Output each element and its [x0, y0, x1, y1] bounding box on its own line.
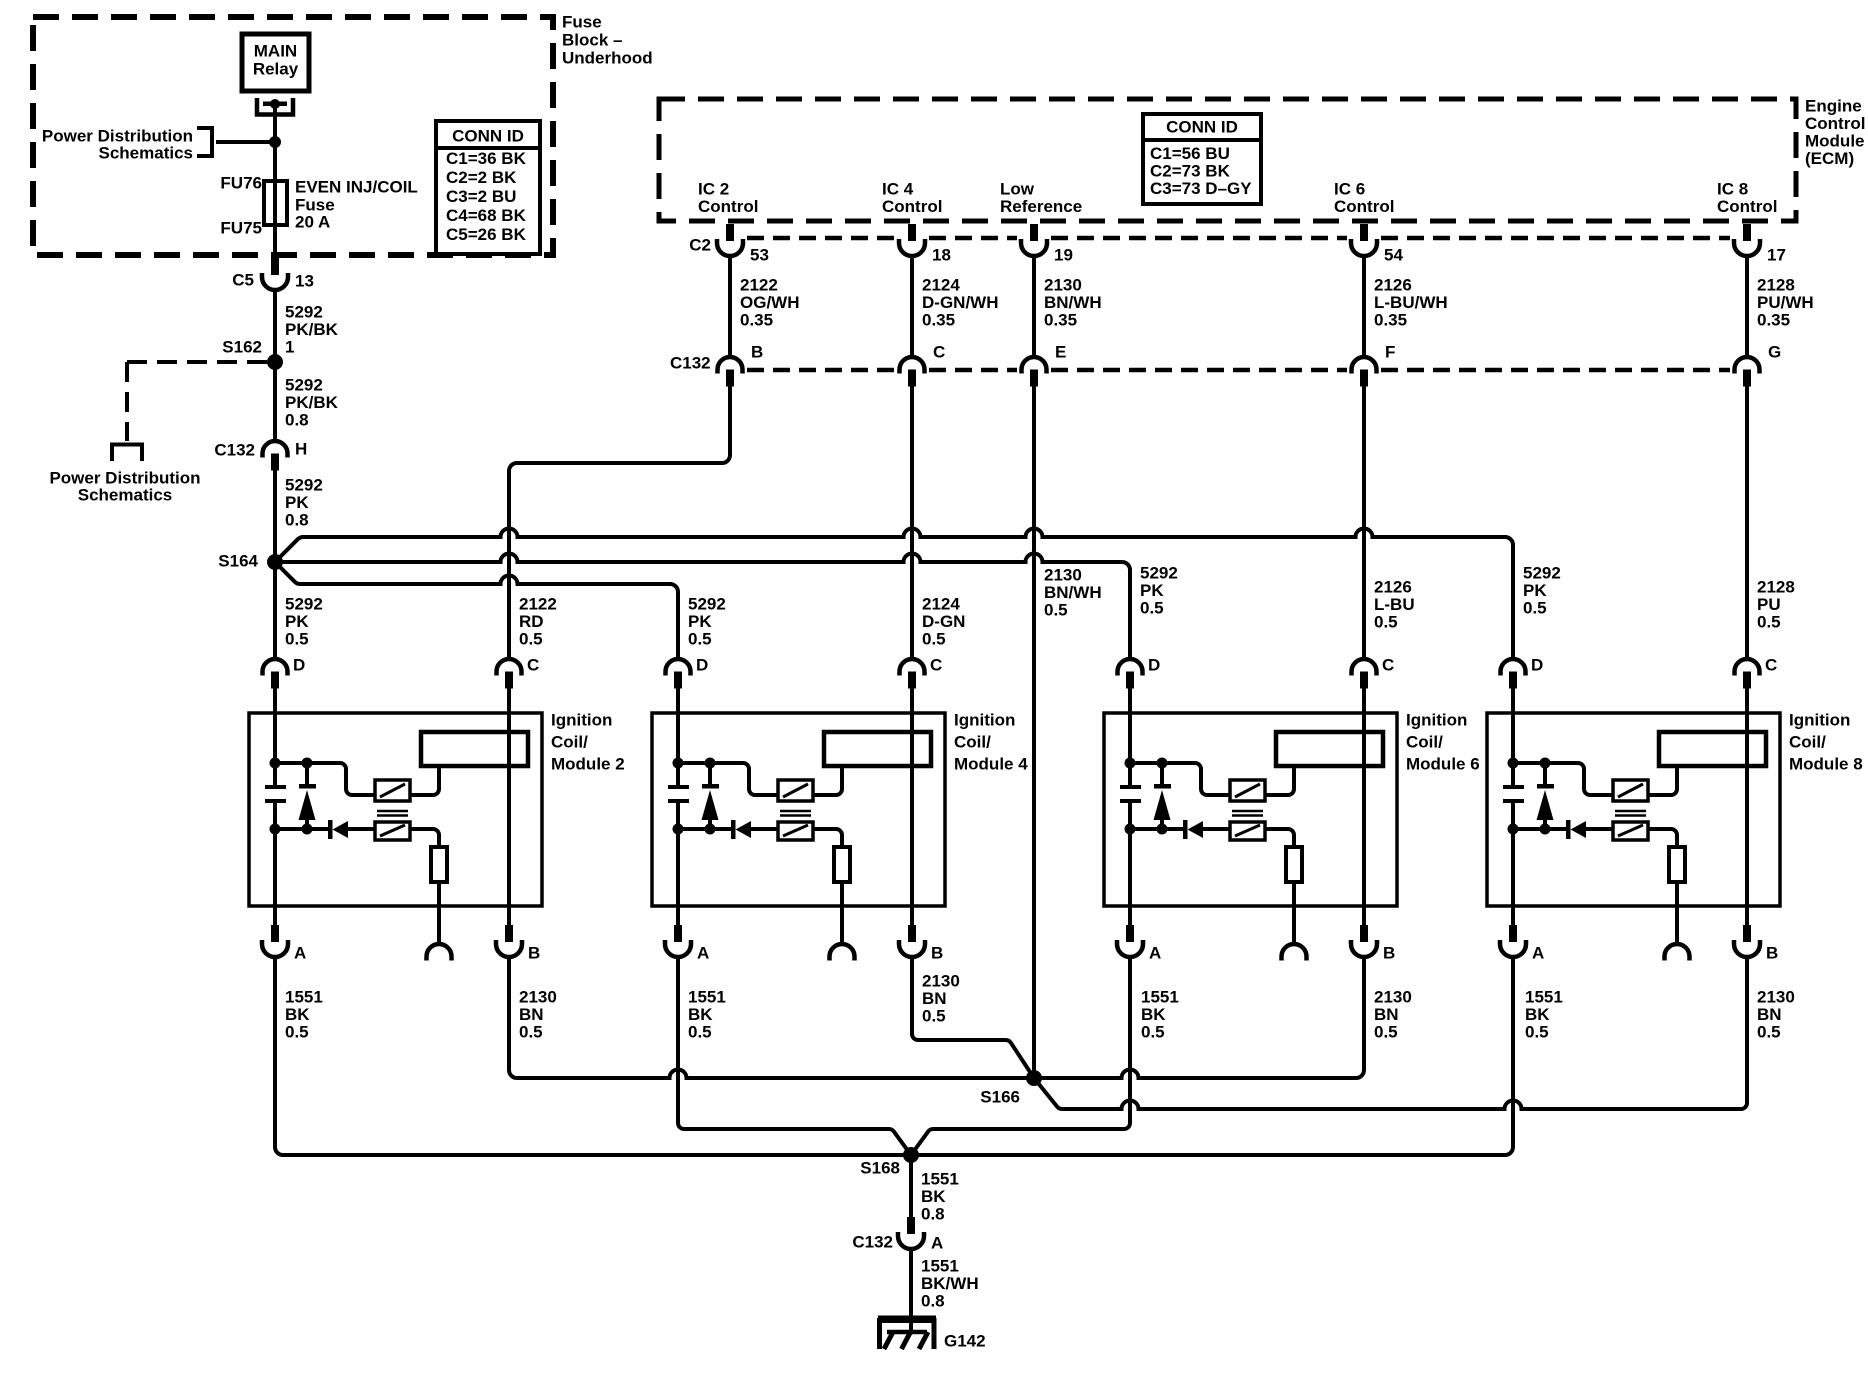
svg-text:0.5: 0.5 — [1757, 613, 1781, 632]
svg-text:C: C — [930, 656, 942, 675]
svg-text:FU75: FU75 — [220, 219, 262, 238]
svg-text:C1=56 BU: C1=56 BU — [1150, 144, 1230, 163]
svg-text:2126: 2126 — [1374, 578, 1412, 597]
svg-text:17: 17 — [1767, 246, 1786, 265]
svg-text:D: D — [1148, 656, 1160, 675]
svg-text:Module 4: Module 4 — [954, 755, 1028, 774]
svg-text:5292: 5292 — [285, 595, 323, 614]
svg-text:0.35: 0.35 — [1757, 311, 1790, 330]
svg-text:1: 1 — [285, 338, 294, 357]
svg-text:1551: 1551 — [921, 1170, 959, 1189]
svg-text:Control: Control — [1717, 197, 1777, 216]
svg-text:0.5: 0.5 — [688, 630, 712, 649]
svg-text:C1=36 BK: C1=36 BK — [446, 149, 527, 168]
svg-text:2130: 2130 — [1374, 988, 1412, 1007]
svg-text:0.5: 0.5 — [1044, 601, 1068, 620]
svg-text:13: 13 — [295, 272, 314, 291]
svg-text:PK: PK — [688, 612, 712, 631]
svg-text:5292: 5292 — [1523, 564, 1561, 583]
svg-text:0.35: 0.35 — [1374, 311, 1407, 330]
svg-text:0.5: 0.5 — [1140, 599, 1164, 618]
svg-text:(ECM): (ECM) — [1805, 149, 1854, 168]
svg-text:L-BU: L-BU — [1374, 595, 1415, 614]
svg-text:Module 6: Module 6 — [1406, 755, 1480, 774]
svg-text:PU/WH: PU/WH — [1757, 293, 1814, 312]
svg-text:C2=73 BK: C2=73 BK — [1150, 162, 1231, 181]
svg-text:L-BU/WH: L-BU/WH — [1374, 293, 1448, 312]
svg-text:C: C — [527, 656, 539, 675]
svg-text:1551: 1551 — [688, 988, 726, 1007]
svg-text:Ignition: Ignition — [1406, 711, 1467, 730]
svg-text:BN/WH: BN/WH — [1044, 293, 1102, 312]
svg-text:Control: Control — [1334, 197, 1394, 216]
svg-text:Ignition: Ignition — [954, 711, 1015, 730]
svg-text:5292: 5292 — [688, 595, 726, 614]
svg-text:0.5: 0.5 — [922, 1007, 946, 1026]
svg-text:Low: Low — [1000, 180, 1035, 199]
svg-text:C: C — [1382, 656, 1394, 675]
svg-text:Schematics: Schematics — [99, 144, 194, 163]
svg-text:0.5: 0.5 — [1374, 1023, 1398, 1042]
svg-text:0.5: 0.5 — [1757, 1023, 1781, 1042]
svg-text:BK: BK — [1525, 1005, 1550, 1024]
svg-text:PK/BK: PK/BK — [285, 393, 339, 412]
svg-text:B: B — [528, 944, 540, 963]
svg-text:2128: 2128 — [1757, 276, 1795, 295]
svg-text:19: 19 — [1054, 246, 1073, 265]
svg-text:BK: BK — [1141, 1005, 1166, 1024]
svg-text:C4=68 BK: C4=68 BK — [446, 206, 527, 225]
svg-text:Relay: Relay — [253, 60, 299, 79]
svg-text:S162: S162 — [222, 338, 262, 357]
svg-text:1551: 1551 — [285, 988, 323, 1007]
svg-text:PK: PK — [1523, 581, 1547, 600]
svg-text:C2: C2 — [689, 236, 711, 255]
svg-text:D: D — [293, 656, 305, 675]
svg-text:Module 8: Module 8 — [1789, 755, 1863, 774]
svg-text:C2=2 BK: C2=2 BK — [446, 168, 517, 187]
svg-text:5292: 5292 — [285, 476, 323, 495]
svg-text:0.5: 0.5 — [519, 1023, 543, 1042]
svg-text:20 A: 20 A — [295, 213, 330, 232]
svg-text:0.5: 0.5 — [1374, 613, 1398, 632]
svg-text:E: E — [1055, 343, 1066, 362]
svg-text:IC 6: IC 6 — [1334, 180, 1365, 199]
svg-text:OG/WH: OG/WH — [740, 293, 800, 312]
svg-text:BN/WH: BN/WH — [1044, 583, 1102, 602]
svg-text:B: B — [1766, 944, 1778, 963]
svg-text:C132: C132 — [214, 441, 255, 460]
svg-text:Ignition: Ignition — [1789, 711, 1850, 730]
svg-text:Coil/: Coil/ — [1789, 733, 1826, 752]
svg-text:5292: 5292 — [285, 376, 323, 395]
svg-text:18: 18 — [932, 246, 951, 265]
svg-text:Reference: Reference — [1000, 197, 1082, 216]
svg-text:53: 53 — [750, 246, 769, 265]
svg-text:C: C — [933, 343, 945, 362]
svg-text:B: B — [1383, 944, 1395, 963]
svg-text:S164: S164 — [218, 552, 258, 571]
svg-text:PU: PU — [1757, 595, 1781, 614]
svg-text:A: A — [697, 944, 709, 963]
svg-text:Underhood: Underhood — [562, 49, 653, 68]
svg-text:G: G — [1768, 343, 1781, 362]
svg-text:G142: G142 — [944, 1332, 986, 1351]
svg-text:0.5: 0.5 — [285, 1023, 309, 1042]
svg-text:54: 54 — [1384, 246, 1403, 265]
svg-text:2130: 2130 — [1757, 988, 1795, 1007]
svg-text:2124: 2124 — [922, 595, 960, 614]
svg-text:BN: BN — [1757, 1005, 1782, 1024]
svg-text:Engine: Engine — [1805, 97, 1862, 116]
svg-text:BK: BK — [285, 1005, 310, 1024]
svg-text:2122: 2122 — [740, 276, 778, 295]
svg-text:A: A — [1532, 944, 1544, 963]
svg-text:1551: 1551 — [1141, 988, 1179, 1007]
svg-text:IC 4: IC 4 — [882, 180, 914, 199]
svg-text:D-GN: D-GN — [922, 612, 965, 631]
svg-text:C5=26 BK: C5=26 BK — [446, 225, 527, 244]
svg-text:0.35: 0.35 — [740, 311, 773, 330]
svg-text:2124: 2124 — [922, 276, 960, 295]
svg-text:0.8: 0.8 — [285, 511, 309, 530]
svg-text:B: B — [751, 343, 763, 362]
svg-text:2126: 2126 — [1374, 276, 1412, 295]
svg-text:RD: RD — [519, 612, 544, 631]
svg-text:BN: BN — [1374, 1005, 1399, 1024]
svg-text:0.5: 0.5 — [285, 630, 309, 649]
svg-text:0.5: 0.5 — [1523, 599, 1547, 618]
svg-text:D: D — [696, 656, 708, 675]
svg-text:0.8: 0.8 — [921, 1292, 945, 1311]
svg-text:PK: PK — [285, 612, 309, 631]
svg-text:2130: 2130 — [922, 972, 960, 991]
svg-text:Fuse: Fuse — [562, 13, 602, 32]
svg-text:H: H — [295, 440, 307, 459]
svg-text:A: A — [1149, 944, 1161, 963]
svg-text:0.8: 0.8 — [921, 1205, 945, 1224]
svg-text:Control: Control — [1805, 114, 1865, 133]
svg-text:2130: 2130 — [519, 988, 557, 1007]
svg-text:Control: Control — [698, 197, 758, 216]
svg-text:PK: PK — [1140, 581, 1164, 600]
svg-text:C3=73 D–GY: C3=73 D–GY — [1150, 179, 1252, 198]
svg-text:C: C — [1765, 656, 1777, 675]
svg-text:0.35: 0.35 — [922, 311, 955, 330]
svg-text:BN: BN — [922, 989, 947, 1008]
svg-text:A: A — [294, 944, 306, 963]
svg-text:A: A — [931, 1234, 943, 1253]
svg-text:D-GN/WH: D-GN/WH — [922, 293, 998, 312]
svg-text:IC 8: IC 8 — [1717, 180, 1748, 199]
svg-text:BK/WH: BK/WH — [921, 1274, 979, 1293]
svg-text:B: B — [931, 944, 943, 963]
svg-text:EVEN INJ/COIL: EVEN INJ/COIL — [295, 178, 418, 197]
svg-text:0.5: 0.5 — [1525, 1023, 1549, 1042]
svg-text:5292: 5292 — [1140, 564, 1178, 583]
svg-text:D: D — [1531, 656, 1543, 675]
svg-text:1551: 1551 — [1525, 988, 1563, 1007]
svg-text:S166: S166 — [980, 1088, 1020, 1107]
svg-text:2130: 2130 — [1044, 276, 1082, 295]
svg-text:BK: BK — [688, 1005, 713, 1024]
svg-text:C132: C132 — [670, 354, 711, 373]
svg-text:Schematics: Schematics — [78, 486, 173, 505]
svg-text:CONN ID: CONN ID — [1166, 118, 1238, 137]
svg-text:Coil/: Coil/ — [551, 733, 588, 752]
svg-text:5292: 5292 — [285, 303, 323, 322]
svg-text:0.5: 0.5 — [519, 630, 543, 649]
svg-text:2122: 2122 — [519, 595, 557, 614]
svg-text:Module: Module — [1805, 132, 1865, 151]
svg-text:0.5: 0.5 — [1141, 1023, 1165, 1042]
svg-text:FU76: FU76 — [220, 174, 262, 193]
svg-text:Ignition: Ignition — [551, 711, 612, 730]
svg-text:0.5: 0.5 — [922, 630, 946, 649]
svg-text:C5: C5 — [232, 271, 254, 290]
svg-text:BN: BN — [519, 1005, 544, 1024]
svg-text:C3=2 BU: C3=2 BU — [446, 187, 516, 206]
svg-text:2130: 2130 — [1044, 566, 1082, 585]
svg-text:0.35: 0.35 — [1044, 311, 1077, 330]
svg-text:PK/BK: PK/BK — [285, 320, 339, 339]
svg-text:S168: S168 — [860, 1159, 900, 1178]
svg-text:MAIN: MAIN — [254, 42, 297, 61]
svg-text:Control: Control — [882, 197, 942, 216]
svg-text:Coil/: Coil/ — [954, 733, 991, 752]
svg-text:IC 2: IC 2 — [698, 180, 729, 199]
svg-text:C132: C132 — [852, 1233, 893, 1252]
svg-text:BK: BK — [921, 1187, 946, 1206]
svg-text:0.5: 0.5 — [688, 1023, 712, 1042]
svg-text:2128: 2128 — [1757, 578, 1795, 597]
svg-text:Module 2: Module 2 — [551, 755, 625, 774]
svg-text:1551: 1551 — [921, 1257, 959, 1276]
svg-text:PK: PK — [285, 493, 309, 512]
svg-text:Block –: Block – — [562, 31, 622, 50]
svg-text:Coil/: Coil/ — [1406, 733, 1443, 752]
svg-text:F: F — [1385, 343, 1395, 362]
svg-text:CONN ID: CONN ID — [452, 127, 524, 146]
svg-text:0.8: 0.8 — [285, 411, 309, 430]
